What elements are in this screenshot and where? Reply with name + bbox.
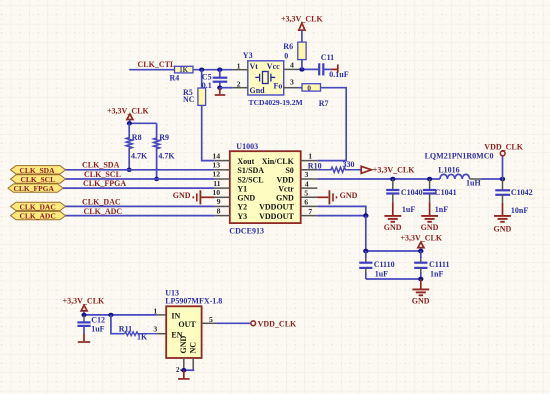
power ground bar below U13: [183, 370, 185, 378]
svg-text:1K: 1K: [137, 333, 148, 342]
svg-text:CLK_DAC: CLK_DAC: [20, 202, 56, 211]
U1003 right pin names: [259, 157, 294, 221]
svg-text:C11: C11: [321, 53, 334, 62]
svg-text:VDDOUT: VDDOUT: [259, 212, 294, 221]
port CLK_ADC: [11, 211, 66, 219]
junction VDD_CLK / C1042: [500, 177, 505, 182]
svg-text:4.7K: 4.7K: [158, 151, 175, 160]
junction C5 / Y3 pin 2: [217, 86, 222, 90]
U13 pin 2 GND stub down: [183, 358, 185, 370]
svg-text:0: 0: [307, 83, 311, 92]
svg-text:CLK_CTL: CLK_CTL: [138, 60, 176, 69]
svg-text:Vcc: Vcc: [267, 62, 280, 71]
resistor R10 on pin 2 (S0): [317, 167, 361, 172]
resistor R8: [126, 123, 132, 170]
IC U1003 CDCE913 body: [230, 151, 301, 223]
wire rail feeding R8 and R9: [129, 122, 156, 124]
earth ground below C1042: [494, 203, 511, 222]
svg-text:7: 7: [308, 207, 312, 216]
power port VDD_CLK (circle) top right: [502, 156, 504, 179]
power ground bar below C12: [83, 334, 85, 341]
junction C1040 tap: [390, 177, 395, 182]
wire net VDD from U1003 pin 3 to inductor L1016: [317, 178, 440, 180]
svg-text:Vt: Vt: [250, 62, 259, 71]
svg-text:NC: NC: [188, 342, 197, 354]
wire Y3 pin 4 to R6/C11 junction: [299, 68, 318, 70]
svg-text:1uF: 1uF: [402, 205, 415, 214]
junction at C12: [81, 313, 86, 317]
wire from R7 down to U1003 pin 1 (Xin/CLK): [317, 88, 346, 161]
svg-text:LP5907MFX-1.8: LP5907MFX-1.8: [165, 296, 222, 305]
wire +3.3V rail to U13 pin 1 (IN): [84, 314, 157, 316]
wire net CLK_SDA to U1003 pin 13: [66, 169, 215, 171]
svg-text:VDDOUT: VDDOUT: [259, 203, 294, 212]
svg-text:R10: R10: [308, 162, 322, 171]
junction at R11 branch: [108, 313, 113, 317]
svg-text:U1003: U1003: [236, 142, 258, 151]
svg-text:13: 13: [212, 161, 220, 170]
resistor R4: [175, 66, 194, 73]
capacitor C5: [219, 70, 221, 78]
svg-text:GND: GND: [340, 191, 358, 200]
svg-text:CLK_SDA: CLK_SDA: [20, 166, 56, 175]
svg-text:5: 5: [304, 189, 308, 198]
svg-text:1nF: 1nF: [435, 205, 448, 214]
svg-text:C1040: C1040: [401, 188, 423, 197]
svg-text:CDCE913: CDCE913: [229, 226, 264, 235]
svg-text:1K: 1K: [179, 67, 188, 74]
power ground bar below C5: [219, 88, 221, 94]
svg-text:S0: S0: [285, 166, 293, 175]
wire U1003 pin 6 (VDDOUT) to vertical rail: [317, 206, 366, 215]
resistor R9: [154, 123, 160, 179]
svg-text:3: 3: [305, 170, 309, 179]
svg-text:0: 0: [284, 52, 288, 61]
svg-text:CLK_SCL: CLK_SCL: [21, 175, 56, 184]
power port VDD_CLK (circle) at U13 output: [251, 321, 256, 326]
oscillator Y3 TCD4029-19.2M: [248, 61, 284, 95]
svg-text:C1042: C1042: [511, 188, 533, 197]
svg-text:VDD_CLK: VDD_CLK: [258, 320, 297, 329]
svg-text:CLK_ADC: CLK_ADC: [84, 207, 123, 216]
svg-text:TCD4029-19.2M: TCD4029-19.2M: [249, 98, 303, 107]
svg-text:1uF: 1uF: [375, 270, 388, 279]
svg-text:1: 1: [237, 61, 241, 70]
junction at R8 top: [127, 121, 132, 125]
Y3 pin 3 Fo stub: [284, 87, 300, 89]
power ground GND at U1003 pin 5 (bar style): [317, 190, 336, 204]
wire rail down to C1110/C1111 block: [365, 216, 367, 251]
svg-text:C1110: C1110: [374, 260, 395, 269]
wire net CLK_DAC to U1003 pin 9: [66, 205, 215, 207]
svg-text:10nF: 10nF: [511, 206, 528, 215]
svg-text:R8: R8: [132, 133, 142, 142]
svg-text:3: 3: [153, 325, 157, 334]
svg-text:Xout: Xout: [237, 157, 254, 166]
U13 pin 1 IN stub: [157, 314, 167, 316]
svg-text:14: 14: [212, 151, 220, 160]
capacitor C1041: [429, 179, 431, 190]
inductor L1016: [440, 174, 470, 179]
U1003 right pin numbers: [304, 151, 312, 216]
U13 pin 3 EN stub: [157, 333, 167, 335]
svg-text:4: 4: [305, 179, 309, 188]
svg-text:S2/SCL: S2/SCL: [237, 175, 263, 184]
junction C1041 tap: [427, 177, 432, 182]
svg-text:R6: R6: [283, 42, 293, 51]
svg-text:5: 5: [209, 315, 213, 324]
svg-text:Y3: Y3: [237, 212, 247, 221]
svg-text:C1041: C1041: [435, 188, 457, 197]
svg-text:R9: R9: [159, 133, 169, 142]
svg-text:+3,3V_CLK: +3,3V_CLK: [107, 107, 149, 116]
svg-text:NC: NC: [183, 95, 195, 104]
svg-text:VDD_CLK: VDD_CLK: [484, 142, 523, 151]
svg-text:GND: GND: [384, 223, 402, 232]
Y3 pin 4 Vcc stub: [284, 68, 300, 70]
svg-text:1: 1: [308, 151, 312, 160]
earth ground below C1111: [412, 279, 429, 295]
svg-text:GND: GND: [421, 223, 439, 232]
svg-text:3: 3: [290, 78, 294, 87]
svg-text:Y1: Y1: [237, 184, 247, 193]
svg-text:11: 11: [213, 179, 220, 188]
inductor right lead: [470, 178, 481, 180]
svg-text:VDD: VDD: [276, 175, 294, 184]
svg-text:R4: R4: [170, 74, 180, 83]
svg-text:+3,3V_CLK: +3,3V_CLK: [373, 165, 415, 174]
junction top rail at C1110: [363, 249, 368, 254]
svg-text:10: 10: [212, 188, 220, 197]
U1003 right pin stubs 1,2,3,4,5,6,7: [301, 161, 318, 216]
junction pin6/pin7 rail: [363, 213, 368, 218]
svg-text:0.1uF: 0.1uF: [329, 70, 348, 79]
U13 pin 4 NC stub down: [192, 358, 194, 370]
wire net CLK_SCL to U1003 pin 12: [66, 178, 215, 180]
wire Y3 pin 2 to C5: [220, 87, 233, 89]
svg-text:GND: GND: [237, 194, 255, 203]
svg-text:1uF: 1uF: [91, 324, 104, 333]
wire net CLK_CTL from stub to R4: [129, 69, 174, 71]
svg-text:Y2: Y2: [237, 203, 247, 212]
svg-text:C1111: C1111: [429, 260, 449, 269]
wire U1003 pin 7 (VDDOUT) joining rail: [317, 215, 366, 217]
svg-text:L1016: L1016: [438, 165, 459, 174]
junction at C5 tap: [217, 68, 222, 72]
svg-text:Xin/CLK: Xin/CLK: [262, 157, 295, 166]
resistor R11 to U13 pin 3 (EN): [111, 315, 125, 334]
resistor R5 (not fitted): [201, 70, 203, 88]
svg-text:GND: GND: [173, 191, 191, 200]
svg-text:0.1: 0.1: [202, 81, 212, 90]
svg-text:4: 4: [290, 61, 294, 70]
wire from R4 to Y3 pin 1: [193, 69, 232, 71]
svg-text:Y3: Y3: [243, 51, 253, 60]
svg-text:LQM21PN1R0MC0: LQM21PN1R0MC0: [425, 151, 494, 160]
junction top rail at C1111: [418, 249, 423, 254]
capacitor C1042: [502, 179, 504, 190]
resistor R7: [299, 87, 302, 89]
svg-text:8: 8: [217, 206, 221, 215]
Y3 pin 1 Vt stub: [232, 69, 247, 71]
regulator U13 LP5907MFX-1.8 body: [166, 306, 201, 358]
svg-text:CLK_ADC: CLK_ADC: [20, 212, 56, 221]
svg-text:Vctr: Vctr: [278, 184, 294, 193]
svg-text:R11: R11: [119, 324, 132, 333]
wire bottom rail of C1110/C1111 block: [366, 278, 421, 280]
svg-text:GND: GND: [276, 194, 294, 203]
svg-text:6: 6: [304, 198, 308, 207]
svg-text:CLK_FPGA: CLK_FPGA: [83, 179, 126, 188]
svg-text:Gnd: Gnd: [250, 86, 266, 95]
port CLK_DAC: [11, 202, 66, 210]
svg-text:+3,3V_CLK: +3,3V_CLK: [400, 234, 442, 243]
svg-text:1uH: 1uH: [466, 179, 481, 188]
capacitor C1040: [392, 179, 394, 190]
port CLK_FPGA: [8, 184, 63, 192]
wire net CLK_FPGA to U1003 pin 11: [63, 187, 215, 189]
svg-text:CLK_SDA: CLK_SDA: [82, 161, 120, 170]
earth ground below C1041: [421, 202, 438, 221]
junction below U13 pin 2: [181, 368, 186, 372]
svg-text:12: 12: [212, 170, 220, 179]
Y3 pin 2 Gnd stub: [232, 87, 247, 89]
port CLK_SCL: [11, 175, 66, 183]
svg-text:9: 9: [217, 197, 221, 206]
svg-text:GND: GND: [494, 225, 512, 234]
resistor R6: [301, 30, 303, 42]
svg-text:CLK_DAC: CLK_DAC: [82, 198, 121, 207]
wire from R5 down to U1003 pin 14 (Xout): [202, 105, 215, 160]
wire joining U13 pins 2 and 4: [180, 369, 194, 371]
junction bottom rail at C1111: [418, 277, 423, 282]
svg-text:1: 1: [153, 306, 157, 315]
capacitor C1110: [365, 251, 367, 259]
svg-text:R7: R7: [319, 99, 329, 108]
svg-text:CLK_SCL: CLK_SCL: [84, 170, 121, 179]
junction R6/C11 on pin 4 net: [299, 67, 304, 71]
junction R9 on CLK_SCL: [154, 177, 159, 181]
wire net CLK_ADC to U1003 pin 8: [66, 215, 215, 217]
port CLK_SDA: [11, 166, 66, 174]
svg-text:C12: C12: [91, 316, 105, 325]
U1003 left pin names: [237, 157, 264, 221]
svg-text:1nF: 1nF: [430, 270, 443, 279]
capacitor C1111: [420, 251, 422, 259]
svg-text:2: 2: [237, 80, 241, 89]
crystal symbol inside Y3: [255, 72, 275, 84]
svg-text:Fo: Fo: [274, 82, 283, 91]
power port +3,3V_CLK at R10 (arrow right): [361, 166, 371, 173]
svg-text:330: 330: [343, 160, 355, 169]
capacitor C11: [318, 63, 320, 75]
U13 pin 5 OUT stub: [202, 322, 217, 324]
svg-text:4.7K: 4.7K: [131, 151, 148, 160]
svg-text:OUT: OUT: [178, 320, 196, 329]
earth ground below C1040: [384, 202, 401, 221]
svg-text:CLK_FPGA: CLK_FPGA: [14, 184, 55, 193]
svg-text:GND: GND: [179, 336, 188, 354]
svg-text:C5: C5: [202, 72, 212, 81]
svg-text:GND: GND: [412, 297, 430, 306]
power ground bar right of C11: [331, 68, 337, 70]
capacitor C12: [83, 315, 85, 323]
wire U13 pin 5 (OUT) to VDD_CLK: [217, 322, 251, 324]
U1003 left pin stubs 14,13,12,11,10,9,8: [215, 161, 230, 216]
junction R8 on CLK_SDA: [127, 168, 132, 172]
junction at R5 tap: [199, 68, 204, 72]
svg-text:2: 2: [176, 366, 180, 374]
wire top rail of C1110/C1111 block: [366, 250, 421, 252]
svg-text:S1/SDA: S1/SDA: [237, 166, 264, 175]
U1003 left pin numbers: [212, 151, 220, 215]
